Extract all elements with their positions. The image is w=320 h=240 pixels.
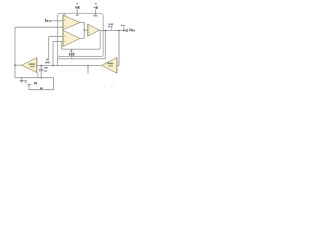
terminal VOUT [126, 30, 128, 32]
label REF [70, 50, 72, 52]
wire feedback A2 [61, 31, 100, 50]
wire [15, 64, 22, 66]
op-amp A4 [22, 58, 37, 73]
op-amp A1 [63, 15, 80, 29]
ground [21, 78, 23, 81]
op-amp A2 [63, 30, 80, 46]
label A1 [63, 14, 67, 16]
wire RG A [49, 36, 63, 38]
node D [105, 30, 107, 32]
node C [52, 65, 54, 67]
wire mid net [37, 65, 102, 67]
input port IN [49, 20, 52, 23]
wire [29, 78, 54, 90]
capacitor C3 [40, 66, 42, 69]
wire [84, 29, 88, 31]
wire ref net [57, 31, 105, 59]
ref pin [71, 49, 73, 59]
wire [56, 57, 58, 66]
pin name inside [76, 15, 79, 17]
faint dot [105, 86, 106, 87]
wire bottom [15, 77, 54, 79]
wire [52, 42, 54, 66]
label C3 [44, 67, 48, 69]
wire A4 lower input [37, 73, 39, 78]
node F [87, 65, 89, 67]
node E [118, 30, 120, 32]
label net RG1 [46, 59, 49, 61]
wire RG B [53, 41, 63, 43]
power pin V- [95, 10, 97, 15]
node A [14, 64, 16, 66]
label V- [95, 2, 97, 5]
node G [40, 65, 42, 67]
pin name inside [93, 15, 97, 17]
label R1 [108, 24, 110, 26]
power pin V+ [76, 9, 78, 15]
wire buffer feed [117, 31, 119, 66]
op-amp A5 [102, 58, 117, 74]
wire [14, 27, 16, 77]
wire [80, 23, 84, 39]
op-amp A3 [88, 24, 100, 36]
label IN [45, 19, 46, 22]
node H [40, 77, 42, 79]
label V+ [76, 2, 78, 5]
label GND [24, 80, 27, 81]
wire output [99, 30, 125, 32]
tick C2 [123, 28, 125, 31]
node B [84, 30, 85, 31]
faint dot [112, 86, 113, 87]
wire feedback A5 [87, 66, 89, 74]
wire [48, 37, 50, 59]
label C2 [121, 25, 123, 27]
label VOUT [129, 28, 130, 31]
label net X [34, 82, 37, 84]
ground 2 [27, 83, 31, 85]
op-amp box U1 [58, 13, 104, 56]
wire [15, 26, 63, 28]
wire [52, 20, 63, 22]
